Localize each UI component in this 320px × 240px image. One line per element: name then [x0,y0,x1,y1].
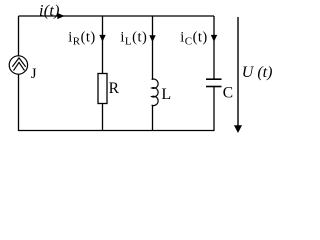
svg-text:i(t): i(t) [39,2,60,19]
svg-text:C: C [223,85,233,102]
svg-text:iC(t): iC(t) [180,29,208,47]
wire C branch upper [213,16,215,79]
svg-text:J: J [31,66,37,82]
arrow current i(t) direction [57,13,64,19]
wire left upper [18,16,20,56]
arrow current iR(t) direction [99,35,105,42]
resistor R [98,74,107,104]
svg-text:R: R [109,80,120,97]
wire R branch lower [102,104,104,132]
arrow voltage U(t) reference [234,17,242,133]
svg-text:iL(t): iL(t) [120,29,147,47]
wire C branch lower [213,87,215,132]
svg-text:L: L [161,86,171,103]
svg-text:iR(t): iR(t) [68,29,96,47]
current source J [9,56,27,74]
inductor L [152,79,158,105]
wire top bus [19,15,215,17]
arrow current iL(t) direction [149,35,155,42]
svg-text:U (t): U (t) [242,64,273,81]
wire bottom bus [19,130,215,132]
wire L branch upper [152,16,154,79]
arrow current iC(t) direction [211,35,217,42]
wire L branch lower [152,105,154,131]
capacitor C [206,79,222,86]
wire R branch upper [102,16,104,74]
wire left lower [18,75,20,131]
